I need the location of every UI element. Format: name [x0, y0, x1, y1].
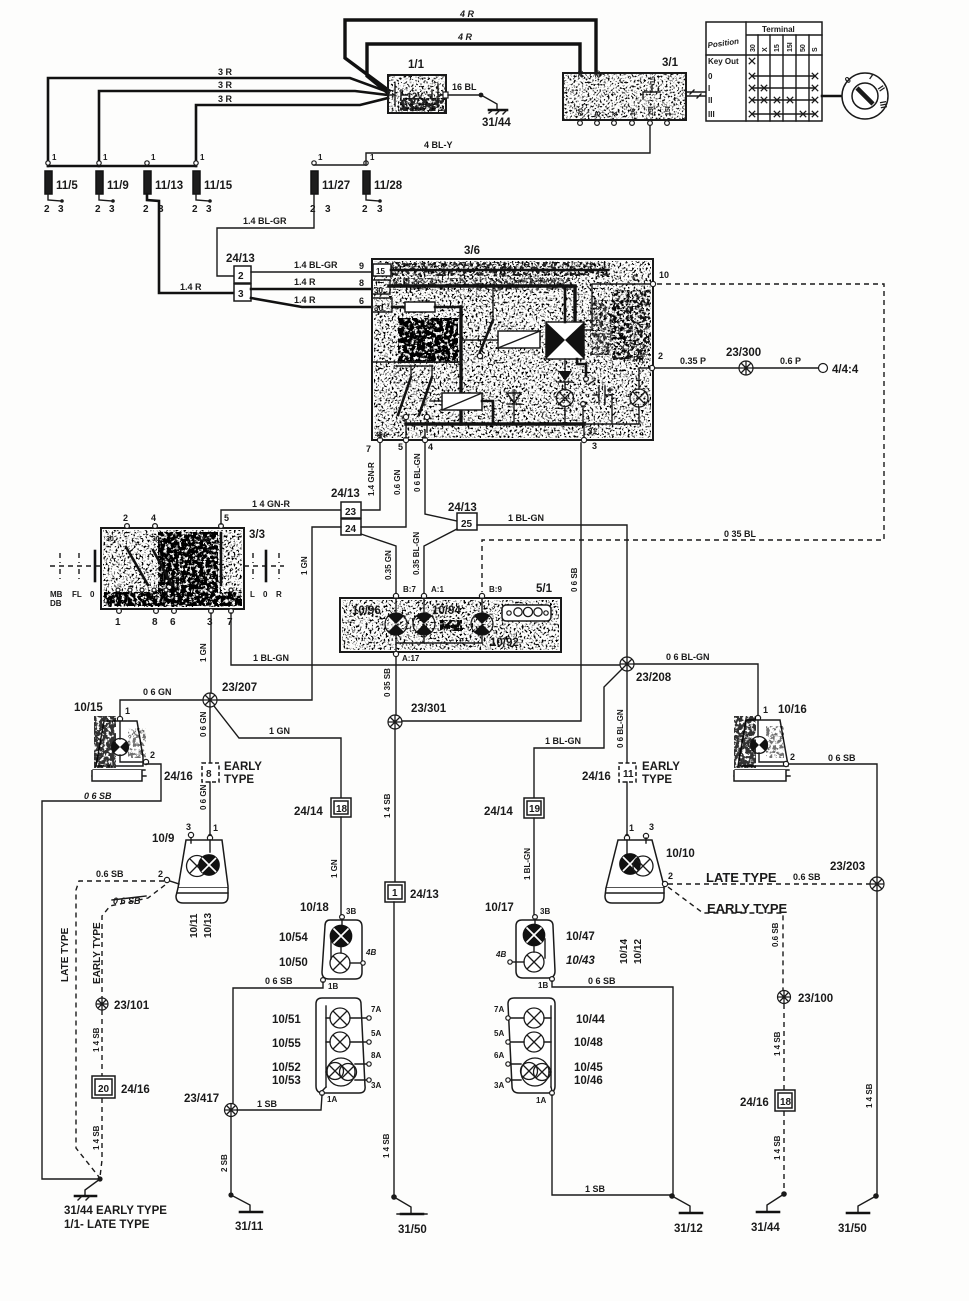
svg-text:24/13: 24/13	[410, 889, 439, 901]
svg-text:10: 10	[659, 270, 669, 280]
svg-text:3: 3	[649, 822, 654, 832]
svg-text:4/4:4: 4/4:4	[832, 364, 859, 376]
indicator lamp mid 3/6	[557, 390, 574, 425]
svg-text:LATE TYPE: LATE TYPE	[706, 870, 777, 885]
svg-text:10/43: 10/43	[566, 955, 595, 967]
wire table to key symbol	[822, 95, 841, 98]
svg-text:1 BL-GN: 1 BL-GN	[545, 736, 581, 746]
wire bowtie to C terminal 3/6	[584, 284, 651, 330]
svg-text:2: 2	[143, 204, 149, 215]
svg-text:0.6 GN: 0.6 GN	[393, 469, 402, 495]
svg-text:3 R: 3 R	[218, 94, 233, 104]
wire 1 SB rear lamps right to ground 31/12	[552, 1095, 671, 1195]
svg-text:2: 2	[44, 204, 50, 215]
svg-text:I: I	[708, 84, 710, 93]
svg-text:7: 7	[227, 617, 233, 628]
flasher 3/6 terminal 15	[373, 264, 608, 276]
svg-text:EARLY: EARLY	[224, 761, 262, 773]
junction 23/208	[620, 657, 672, 684]
svg-text:23/207: 23/207	[222, 682, 257, 694]
svg-text:1 SB: 1 SB	[257, 1099, 278, 1109]
svg-text:23/100: 23/100	[798, 993, 833, 1005]
svg-text:3: 3	[238, 289, 244, 300]
svg-text:24: 24	[345, 524, 357, 535]
rear lamp cluster right 10/44 10/48 10/45 10/46	[494, 998, 605, 1105]
3/3 top pins 2,4,5	[123, 513, 229, 528]
svg-text:11/28: 11/28	[374, 180, 403, 192]
svg-text:11/9: 11/9	[107, 180, 129, 192]
svg-text:30: 30	[750, 44, 757, 52]
svg-text:10/13: 10/13	[203, 913, 214, 938]
svg-text:0 35 BL: 0 35 BL	[724, 529, 757, 539]
dark smudge in cluster	[440, 620, 462, 631]
front lamp 10/10	[605, 822, 695, 903]
svg-text:0.35 P: 0.35 P	[680, 356, 706, 366]
svg-text:0 6 GN: 0 6 GN	[199, 784, 208, 810]
wire 4R upper from battery to ignition switch	[345, 9, 596, 90]
wire 1.4 R connector 24/13-3 to flasher pin 6	[251, 295, 372, 307]
mechanical linkage left of 3/3	[50, 551, 101, 608]
svg-text:10/17: 10/17	[485, 902, 514, 914]
wire 1 BL-GN 3/3 pin 7 to junction 23/208	[231, 613, 620, 665]
svg-text:4 R: 4 R	[457, 32, 473, 42]
bottom pins 7,5,4 of 3/6	[366, 430, 433, 454]
svg-text:3: 3	[109, 204, 115, 215]
svg-text:0 6 SB: 0 6 SB	[588, 976, 616, 986]
svg-text:1 BL-GN: 1 BL-GN	[253, 653, 289, 663]
relay coil upper 3/6	[461, 331, 540, 348]
svg-text:23/300: 23/300	[726, 347, 761, 359]
svg-text:4 R: 4 R	[459, 9, 475, 19]
wire 0.6 SB junction 23/301 to flasher pin 3	[402, 443, 581, 721]
svg-text:4: 4	[151, 513, 156, 523]
fuse 11/15	[192, 153, 233, 215]
svg-text:4B: 4B	[495, 950, 506, 959]
ignition key position table	[706, 22, 822, 121]
wire 2 SB junction 23/417 to ground 31/11	[220, 1117, 231, 1194]
svg-text:15I: 15I	[648, 106, 655, 116]
svg-text:A:1: A:1	[431, 585, 444, 594]
dashed wire 1.4 SB to connector 24/16-20	[92, 1010, 102, 1076]
svg-text:0 6 GN: 0 6 GN	[143, 687, 172, 697]
dashed wire 0.6 SB early type from 10/9 pin 2	[92, 885, 165, 998]
svg-text:1 4 SB: 1 4 SB	[92, 1027, 101, 1052]
dashed wire 0.6 SB late type 10/10 to junction 23/203	[668, 870, 870, 885]
svg-text:2: 2	[238, 271, 244, 282]
svg-text:20: 20	[98, 1084, 110, 1095]
svg-text:23/101: 23/101	[114, 1000, 150, 1012]
svg-text:4 BL-Y: 4 BL-Y	[424, 140, 453, 150]
svg-text:2: 2	[123, 513, 128, 523]
svg-text:2: 2	[158, 869, 163, 879]
svg-text:B:9: B:9	[489, 585, 502, 594]
svg-text:10/16: 10/16	[778, 704, 807, 716]
wire 0.6 SB lamp 10/18 to junction 23/417	[233, 976, 323, 1104]
wire 1 GN connector 18 to lamp 10/18	[330, 817, 341, 915]
lamp PR right 3/6	[630, 351, 663, 424]
svg-text:8: 8	[206, 769, 212, 780]
fuse 11/27	[310, 153, 366, 215]
svg-text:10/96: 10/96	[352, 605, 381, 617]
svg-text:3/6: 3/6	[464, 245, 480, 257]
side lamp unit 10/18	[279, 902, 376, 991]
wire flasher pin 7 to connector 24/13-23	[361, 443, 380, 510]
3/3 bottom pins 1,8,6,3,7	[115, 609, 233, 628]
svg-text:1 4 SB: 1 4 SB	[865, 1083, 874, 1108]
svg-text:10/12: 10/12	[633, 939, 644, 964]
svg-text:31/50: 31/50	[838, 1223, 867, 1235]
ground 31/44 bottom right	[751, 1191, 787, 1234]
wire fuse bus	[48, 165, 196, 168]
wire 1.4 GN-R 3/3 pin 5 to connector 24/13-23	[221, 499, 341, 524]
svg-text:1A: 1A	[536, 1096, 546, 1105]
svg-text:10/52: 10/52	[272, 1062, 301, 1074]
wire flasher pin 4 to connector 25	[413, 443, 457, 521]
svg-text:0 6 SB: 0 6 SB	[828, 753, 856, 763]
svg-text:10/15: 10/15	[74, 702, 103, 714]
svg-text:16: 16	[630, 108, 637, 116]
svg-text:EARLY TYPE: EARLY TYPE	[92, 922, 103, 984]
svg-text:7A: 7A	[494, 1005, 504, 1014]
switch contact mid 3/6	[477, 286, 493, 359]
svg-text:3A: 3A	[371, 1081, 381, 1090]
wire 1.4 SB junction 23/301 to connector 24/13-1	[383, 729, 395, 882]
svg-text:X: X	[612, 111, 619, 116]
wire 1.4 BL-GR fuse 11/27 to connector 24/13 pin 2	[217, 194, 314, 276]
cluster lamp common bus to pin A:17	[393, 635, 482, 663]
wire 1 BL-GN junction 23/208 to connector 24/14-19	[534, 669, 622, 798]
svg-text:5A: 5A	[371, 1029, 381, 1038]
switch contacts bottom left 3/6	[396, 366, 432, 432]
wire 0.35 SB cluster A:17 to junction 23/301	[383, 657, 396, 715]
svg-text:12V: 12V	[407, 91, 423, 101]
svg-text:0.6 SB: 0.6 SB	[96, 869, 124, 879]
svg-text:II: II	[708, 96, 712, 105]
mechanical linkage right of 3/3	[244, 551, 284, 599]
svg-text:1B: 1B	[538, 981, 548, 990]
internal wire left lower area 3/6	[372, 361, 461, 363]
svg-text:1 SB: 1 SB	[585, 1184, 606, 1194]
svg-text:31: 31	[588, 427, 597, 436]
svg-text:1 GN: 1 GN	[300, 556, 309, 575]
svg-text:30: 30	[152, 536, 160, 543]
svg-text:0 6 BL-GN: 0 6 BL-GN	[666, 652, 710, 662]
svg-text:10/50: 10/50	[279, 957, 308, 969]
svg-text:TYPE: TYPE	[642, 774, 672, 786]
svg-text:24/13: 24/13	[331, 488, 360, 500]
svg-text:19: 19	[529, 804, 541, 815]
connector 24/13 pins 2,3	[226, 253, 255, 301]
wire 1.4 SB junction 23/203 to ground 31/50 right	[865, 891, 877, 1196]
svg-text:23/203: 23/203	[830, 861, 865, 873]
wire connector 11 to lamp 10/10	[625, 782, 629, 838]
front lamp 10/9	[152, 822, 228, 903]
capacitor 3/6	[593, 386, 612, 424]
svg-text:EARLY TYPE: EARLY TYPE	[707, 901, 788, 916]
svg-text:31/44: 31/44	[482, 117, 511, 129]
svg-text:10/45: 10/45	[574, 1062, 603, 1074]
wire 16BL battery to ground	[448, 82, 483, 97]
svg-text:15: 15	[650, 76, 657, 84]
svg-text:0 6 SB: 0 6 SB	[84, 791, 112, 801]
svg-text:23/208: 23/208	[636, 672, 672, 684]
svg-text:31/11: 31/11	[235, 1221, 264, 1233]
connector 24/13 pin 1	[385, 882, 439, 902]
svg-text:18: 18	[336, 804, 348, 815]
side lamp unit 10/17	[485, 902, 595, 990]
svg-text:R: R	[276, 590, 282, 599]
svg-text:0.35 BL-GN: 0.35 BL-GN	[412, 532, 421, 575]
connector 24/16 pin 20	[92, 1076, 150, 1098]
svg-text:1 4 GN-R: 1 4 GN-R	[252, 499, 291, 509]
svg-text:10/55: 10/55	[272, 1038, 301, 1050]
svg-text:10/46: 10/46	[574, 1075, 603, 1087]
svg-text:31/44: 31/44	[751, 1222, 780, 1234]
wire 1.4 BL-GR connector 24/13-2 to flasher pin 9	[251, 260, 372, 272]
svg-text:10/9: 10/9	[152, 833, 174, 845]
svg-text:1: 1	[629, 823, 634, 833]
svg-text:3B: 3B	[346, 907, 356, 916]
svg-text:10/10: 10/10	[666, 848, 695, 860]
svg-text:Key Out: Key Out	[708, 57, 739, 66]
svg-text:15I: 15I	[787, 42, 794, 52]
svg-text:L: L	[250, 590, 255, 599]
svg-text:11: 11	[623, 769, 634, 780]
ground 31/12	[669, 1193, 703, 1235]
svg-text:2: 2	[362, 204, 368, 215]
svg-text:1 GN: 1 GN	[199, 643, 208, 662]
svg-text:23/417: 23/417	[184, 1093, 219, 1105]
indicator lamp 10/96	[352, 598, 407, 635]
svg-text:2: 2	[95, 204, 101, 215]
connector 24/14 pin 18	[294, 798, 351, 818]
wire 1 GN connector 24 to junction 23/207	[217, 527, 341, 700]
svg-text:3: 3	[377, 204, 383, 215]
wire 0.35 P pin 2 to connector 23/300	[655, 356, 740, 368]
wire 1.4 SB connector 1 to ground 31/50	[382, 902, 394, 1196]
svg-text:30: 30	[578, 70, 585, 78]
svg-text:LATE TYPE: LATE TYPE	[60, 927, 71, 982]
fuse 11/13	[143, 153, 183, 215]
ignition key symbol	[842, 72, 889, 119]
svg-text:31/50: 31/50	[398, 1224, 427, 1236]
svg-text:15I: 15I	[665, 106, 672, 116]
svg-text:4: 4	[428, 442, 433, 452]
wire 1 BL-GN connector 25 to junction 23/208	[477, 513, 627, 657]
svg-text:24/13: 24/13	[448, 502, 477, 514]
svg-text:1: 1	[115, 617, 121, 628]
ground 31/44 top	[481, 95, 511, 129]
svg-text:8: 8	[152, 617, 158, 628]
svg-text:15: 15	[376, 267, 385, 276]
fuse 11/28	[362, 153, 403, 215]
svg-text:5/1: 5/1	[536, 583, 553, 595]
svg-text:1: 1	[370, 153, 375, 162]
wire 1 GN 3/3 pin 3 to junction 23/207	[199, 613, 211, 693]
connector 24/13 pin 24	[341, 519, 361, 535]
internal bus inside 3/6	[459, 307, 462, 424]
corner lamp 10/16	[734, 704, 807, 781]
connector 24/16 pin 11 early type	[582, 761, 680, 786]
wire 0.6 P to terminal 4/4:4	[753, 356, 819, 368]
instrument cluster 5/1	[340, 583, 561, 652]
svg-text:0: 0	[263, 590, 268, 599]
dashed wire 0.35 BL from pin 10 to cluster B:9	[482, 284, 884, 592]
wire 3R to fuse 11/9	[99, 80, 388, 166]
svg-text:1 4 SB: 1 4 SB	[773, 1135, 782, 1160]
junction 23/207	[203, 682, 257, 707]
svg-text:2: 2	[192, 204, 198, 215]
svg-text:24/16: 24/16	[740, 1097, 769, 1109]
svg-text:4B: 4B	[365, 948, 376, 957]
svg-text:S: S	[812, 47, 819, 52]
dashed wire 0.6 SB early type 10/10 to junction 23/100	[668, 887, 788, 991]
svg-text:3A: 3A	[494, 1081, 504, 1090]
svg-text:2 SB: 2 SB	[220, 1154, 229, 1172]
svg-text:5A: 5A	[494, 1029, 504, 1038]
svg-text:10/18: 10/18	[300, 902, 329, 914]
svg-text:24/14: 24/14	[294, 806, 323, 818]
flasher relay unit 3/6	[372, 245, 653, 440]
svg-text:1: 1	[151, 153, 156, 162]
pin 31/3 of 3/6	[581, 424, 597, 451]
svg-text:8A: 8A	[371, 1051, 381, 1060]
svg-text:49A: 49A	[198, 536, 211, 543]
relay contact right 3/6	[577, 359, 595, 424]
svg-text:23/301: 23/301	[411, 703, 447, 715]
svg-text:6: 6	[359, 296, 364, 306]
svg-text:PR: PR	[633, 355, 644, 364]
svg-text:1 GN: 1 GN	[269, 726, 290, 736]
diode lower left 3/6	[507, 390, 521, 424]
svg-text:C: C	[632, 273, 639, 283]
fuse 11/5	[44, 153, 78, 215]
svg-text:10/92: 10/92	[490, 637, 519, 649]
turn signal switch 3/3	[101, 528, 265, 609]
svg-text:15: 15	[774, 44, 781, 52]
svg-text:1: 1	[392, 888, 398, 899]
svg-text:3 R: 3 R	[218, 80, 233, 90]
svg-text:2: 2	[658, 351, 663, 361]
connector 24/13 pin 25	[448, 502, 477, 530]
svg-text:0: 0	[90, 590, 95, 599]
svg-text:1 GN: 1 GN	[330, 859, 339, 878]
ignition switch 3/1	[563, 57, 686, 125]
svg-text:23: 23	[345, 507, 357, 518]
svg-text:FL: FL	[72, 590, 82, 599]
svg-text:25: 25	[461, 519, 473, 530]
svg-text:1 4 SB: 1 4 SB	[92, 1125, 101, 1150]
gauge icon in cluster	[502, 605, 551, 621]
wire 0.35 BL-GN connector 25 to cluster A:1	[412, 529, 457, 594]
svg-text:1: 1	[318, 153, 323, 162]
wire 1 BL-GN connector 19 to lamp 10/17	[523, 818, 534, 915]
flasher 3/6 terminal 30 lower	[372, 298, 405, 313]
ground 31/50 middle	[391, 1194, 427, 1236]
svg-text:10/47: 10/47	[566, 931, 595, 943]
svg-text:24/16: 24/16	[582, 771, 611, 783]
svg-text:1 4 SB: 1 4 SB	[383, 793, 392, 818]
svg-text:DB: DB	[50, 599, 62, 608]
svg-text:10/54: 10/54	[279, 932, 308, 944]
svg-text:10/44: 10/44	[576, 1014, 605, 1026]
svg-text:0 6 BL-GN: 0 6 BL-GN	[413, 453, 422, 492]
svg-text:0.6 SB: 0.6 SB	[793, 872, 821, 882]
diode lower mid 3/6	[558, 359, 572, 390]
svg-text:3: 3	[592, 441, 597, 451]
svg-text:3: 3	[58, 204, 64, 215]
rear lamp cluster left 10/51 10/55 10/52 10/53	[272, 998, 381, 1104]
svg-text:11/27: 11/27	[322, 180, 350, 192]
svg-text:31/44 EARLY TYPE: 31/44 EARLY TYPE	[64, 1205, 167, 1217]
svg-text:0 6 SB: 0 6 SB	[265, 976, 293, 986]
wire ignition switch to terminal table	[686, 90, 706, 98]
junction 23/417	[184, 1093, 238, 1117]
wire 1.4 R connector 24/13-3 to flasher pin 8	[251, 277, 372, 289]
svg-text:2: 2	[310, 204, 316, 215]
svg-text:10/53: 10/53	[272, 1075, 301, 1087]
ground 31/11	[228, 1192, 263, 1233]
svg-text:31/12: 31/12	[674, 1223, 703, 1235]
svg-text:TYPE: TYPE	[224, 774, 254, 786]
battery 1/1	[388, 59, 448, 113]
svg-text:1 4 SB: 1 4 SB	[773, 1031, 782, 1056]
ground 31/50 right	[838, 1193, 879, 1235]
svg-text:1 BL-GN: 1 BL-GN	[508, 513, 544, 523]
svg-text:1 BL-GN: 1 BL-GN	[523, 848, 532, 880]
connector 24/16 pin 8 early type	[164, 761, 262, 786]
resistor inside 3/6	[405, 302, 461, 312]
svg-text:3: 3	[207, 617, 213, 628]
wire 0.6 BL-GN junction 23/208 to lamp 10/16	[634, 652, 758, 715]
svg-text:EARLY: EARLY	[642, 761, 680, 773]
dashed wire 1.4 SB connector 18 to ground 31/44	[773, 1111, 784, 1192]
svg-text:III: III	[708, 110, 715, 119]
svg-text:1B: 1B	[328, 982, 338, 991]
svg-text:3/1: 3/1	[662, 57, 679, 69]
svg-text:11/15: 11/15	[204, 180, 233, 192]
svg-text:16 BL: 16 BL	[452, 82, 477, 92]
svg-text:1 4 SB: 1 4 SB	[382, 1133, 391, 1158]
wire 0.6 SB lamp 10/15 to ground 31/44	[42, 764, 161, 1179]
junction 23/100	[778, 991, 834, 1006]
svg-text:0: 0	[708, 72, 713, 81]
wire 0.6 GN junction 23/207 to lamp 10/15	[120, 687, 203, 716]
svg-text:1.4 BL-GR: 1.4 BL-GR	[243, 216, 287, 226]
svg-text:B: B	[595, 111, 602, 116]
svg-text:18: 18	[780, 1097, 792, 1108]
wire 0.6 GN junction 23/207 down to connector 24/16-8	[199, 707, 210, 762]
wire flasher pin 5 to connector 24	[361, 443, 406, 527]
svg-text:8: 8	[359, 278, 364, 288]
corner lamp 10/15	[74, 702, 155, 781]
connector 23/300	[726, 347, 761, 375]
svg-text:MB: MB	[50, 590, 63, 599]
svg-text:3: 3	[186, 822, 191, 832]
svg-text:30: 30	[578, 108, 585, 116]
svg-text:3 R: 3 R	[218, 67, 233, 77]
svg-text:10/48: 10/48	[574, 1037, 603, 1049]
wire 3R to fuse 11/5	[48, 67, 388, 166]
svg-text:3: 3	[206, 204, 212, 215]
svg-text:7: 7	[366, 444, 371, 454]
svg-text:0.6 P: 0.6 P	[780, 356, 801, 366]
svg-text:3/3: 3/3	[249, 529, 265, 541]
rotated labels 10/11 10/13	[189, 913, 214, 938]
svg-text:1/1- LATE TYPE: 1/1- LATE TYPE	[64, 1219, 150, 1231]
wire 4 BL-Y fuse 11/28 to ignition switch 15I	[366, 125, 650, 165]
svg-text:0 6 SB: 0 6 SB	[570, 567, 579, 592]
